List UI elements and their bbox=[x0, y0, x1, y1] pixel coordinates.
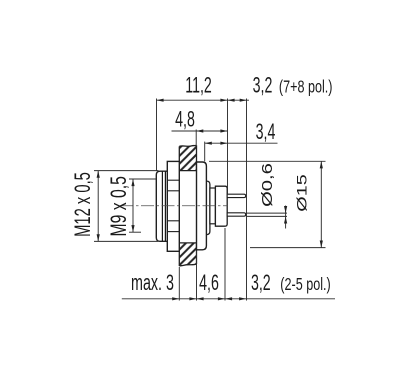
arrow right 3,2 bbox=[240, 99, 247, 102]
dim 11,2 / 3,2 top line bbox=[157, 99, 250, 101]
dim Ø0,6 vertical bbox=[285, 206, 287, 229]
M9 ext lines bbox=[129, 178, 156, 180]
svg-text:M9 x 0,5: M9 x 0,5 bbox=[108, 176, 132, 236]
ext line front face bbox=[156, 99, 158, 171]
bottom dim line bbox=[122, 298, 335, 300]
flange knurl lines bbox=[167, 179, 179, 181]
svg-text:3,2: 3,2 bbox=[253, 72, 273, 97]
svg-text:3,4: 3,4 bbox=[256, 119, 276, 144]
svg-text:(7+8 pol.): (7+8 pol.) bbox=[279, 78, 333, 98]
rear washer step bbox=[210, 188, 216, 224]
ext line nut rear bbox=[204, 142, 206, 162]
panel lower (hatched) bbox=[179, 243, 196, 266]
front flange bar bbox=[167, 161, 179, 251]
svg-text:4,6: 4,6 bbox=[199, 270, 219, 295]
pin lower bbox=[227, 213, 246, 216]
front shell M12 section bbox=[156, 171, 167, 241]
arrows at panel rear bbox=[189, 297, 196, 300]
front shell inner lines bbox=[161, 171, 163, 241]
M12 ext lines bbox=[94, 170, 159, 172]
svg-text:Ø0,6: Ø0,6 bbox=[259, 163, 276, 207]
svg-text:(2-5 pol.): (2-5 pol.) bbox=[280, 275, 330, 295]
center axis line bbox=[121, 205, 229, 207]
dim Ø15 vertical bbox=[320, 161, 322, 247]
pin upper bbox=[227, 194, 246, 197]
arrow at pin tip bbox=[239, 297, 246, 300]
svg-text:max. 3: max. 3 bbox=[131, 270, 174, 295]
dim Ø15 ext lines bbox=[209, 160, 326, 162]
dim M12 vertical bbox=[97, 171, 99, 242]
bottom ext lines bbox=[178, 267, 180, 301]
arrows at shared line bbox=[220, 99, 227, 102]
ext line insert rear bbox=[227, 99, 229, 194]
arrow at panel front bbox=[172, 297, 179, 300]
contact carrier bbox=[215, 186, 227, 226]
svg-text:4,8: 4,8 bbox=[175, 106, 195, 131]
ext line pin tip bbox=[246, 99, 248, 301]
dim 4,8 bbox=[172, 130, 228, 132]
ext line panel rear bbox=[195, 130, 197, 147]
dim 3,4 bbox=[205, 142, 278, 144]
dim M9 vertical bbox=[132, 179, 134, 232]
arrow left 11,2 bbox=[157, 99, 164, 102]
arrows at carrier rear bbox=[218, 297, 225, 300]
panel upper (hatched) bbox=[179, 145, 196, 170]
rear hex nut (Ø15) bbox=[197, 162, 207, 250]
dim Ø0,6 ext lines bbox=[247, 212, 288, 214]
svg-text:3,2: 3,2 bbox=[251, 270, 271, 295]
svg-text:Ø15: Ø15 bbox=[293, 174, 310, 211]
panel hole edges / thread through panel bbox=[179, 170, 196, 172]
svg-text:M12 x 0,5: M12 x 0,5 bbox=[70, 172, 95, 237]
rear sleeve bbox=[200, 181, 210, 235]
svg-text:11,2: 11,2 bbox=[185, 72, 212, 97]
